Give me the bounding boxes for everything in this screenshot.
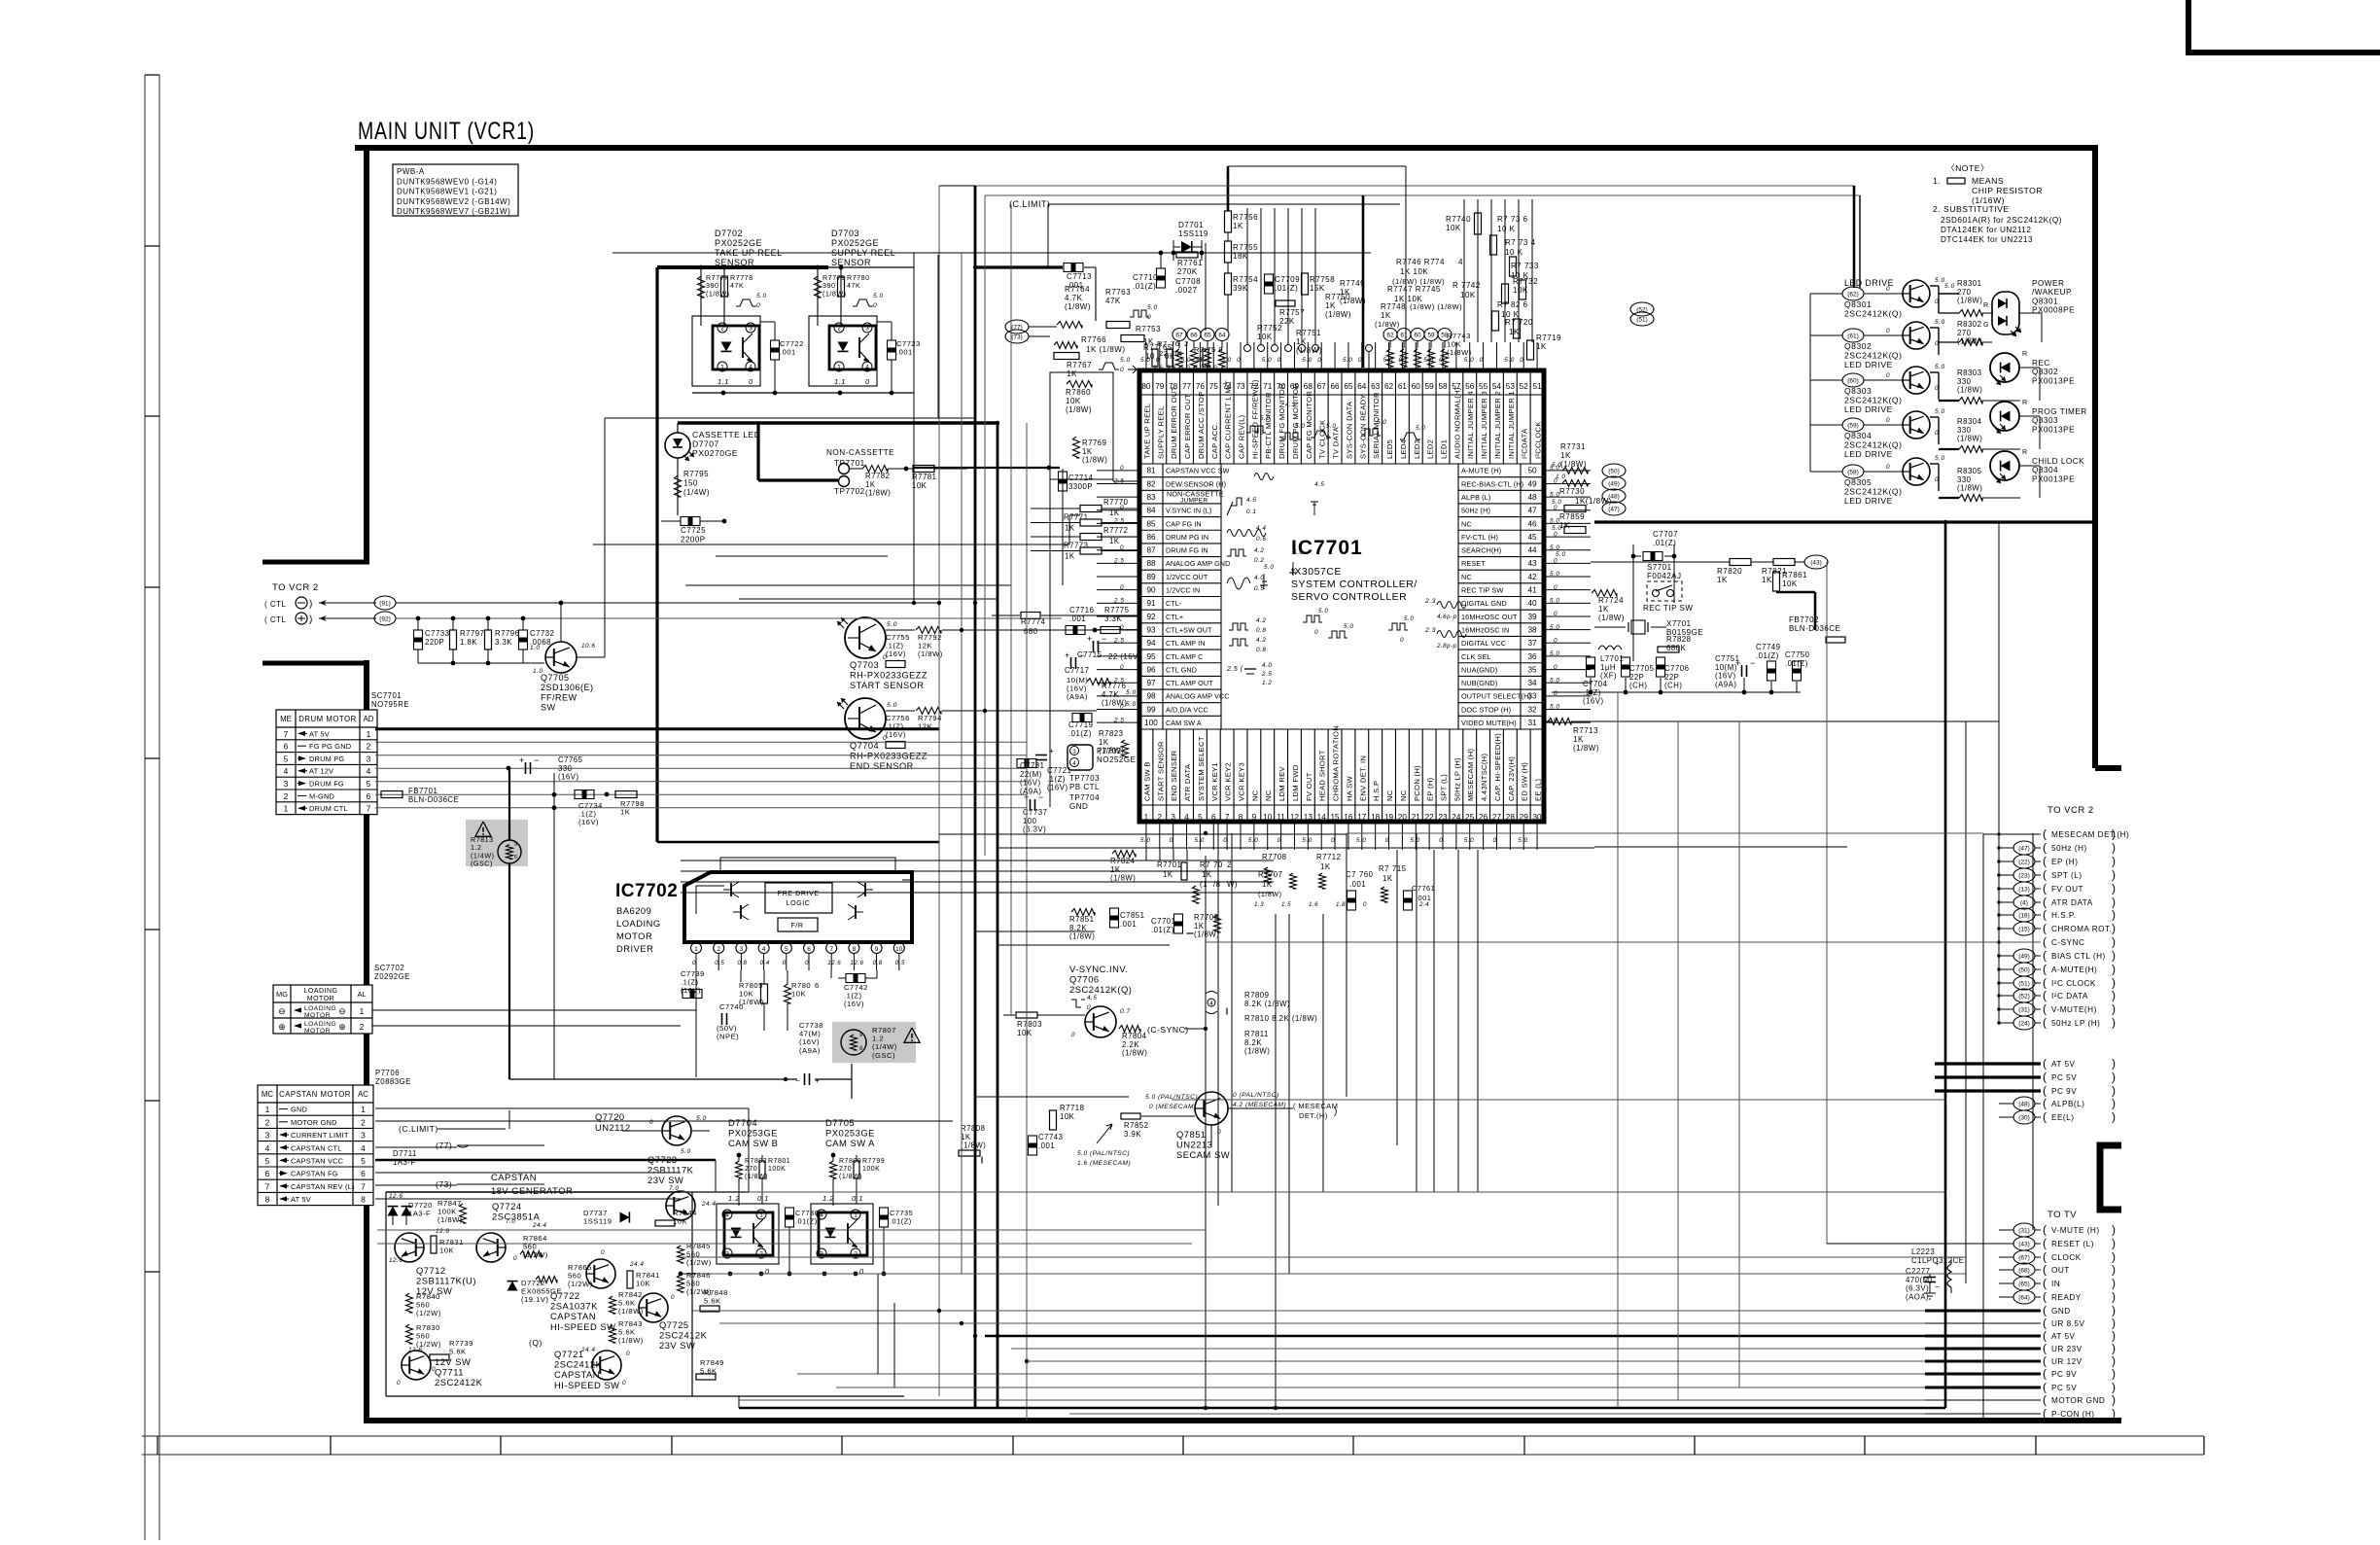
svg-text:0: 0 — [601, 1249, 605, 1256]
svg-text:SPT (L): SPT (L) — [2051, 871, 2082, 880]
svg-text:0.1: 0.1 — [1246, 509, 1256, 515]
svg-text:3.3K: 3.3K — [1104, 614, 1122, 623]
svg-text:TV DATA: TV DATA — [1332, 426, 1341, 459]
svg-text:5.0: 5.0 — [1248, 837, 1258, 844]
svg-text:330: 330 — [1957, 426, 1972, 435]
svg-text:(NPE): (NPE) — [717, 1033, 739, 1041]
svg-text:Q7851: Q7851 — [1176, 1129, 1207, 1140]
svg-text:0 (PAL/NTSC): 0 (PAL/NTSC) — [1233, 1092, 1279, 1099]
svg-text:.001: .001 — [1120, 920, 1137, 929]
svg-text:FB7701: FB7701 — [408, 787, 437, 795]
svg-text:99: 99 — [1146, 705, 1156, 714]
svg-text:NC: NC — [1264, 790, 1273, 801]
svg-text:(43): (43) — [2018, 1242, 2030, 1248]
svg-text:SW: SW — [541, 703, 556, 713]
svg-text:(18): (18) — [2018, 913, 2030, 920]
svg-text:CTL AMP C: CTL AMP C — [1166, 652, 1203, 661]
svg-text:Q8304: Q8304 — [1844, 431, 1872, 440]
svg-text:1K: 1K — [1381, 311, 1391, 320]
svg-text:Q8301: Q8301 — [2032, 297, 2058, 305]
svg-text:C7732: C7732 — [530, 629, 554, 638]
svg-text:Q8305: Q8305 — [1844, 477, 1872, 487]
svg-text:16: 16 — [1344, 813, 1353, 822]
svg-text:): ) — [2112, 895, 2117, 909]
svg-text:DRUM FG MONITOR: DRUM FG MONITOR — [1277, 383, 1286, 459]
svg-text:C7725: C7725 — [681, 526, 706, 535]
svg-text:1SS119: 1SS119 — [1178, 229, 1208, 238]
svg-text:RESET (L): RESET (L) — [2051, 1240, 2094, 1248]
svg-text:8: 8 — [1239, 813, 1243, 822]
svg-text:15: 15 — [1331, 813, 1341, 822]
svg-text:C2277: C2277 — [1906, 1267, 1930, 1276]
svg-text:MOTOR GND: MOTOR GND — [291, 1118, 337, 1127]
svg-text:1K: 1K — [961, 1133, 971, 1141]
svg-text:0: 0 — [626, 1351, 630, 1357]
svg-text:2: 2 — [361, 1117, 366, 1127]
svg-text:(19.1V): (19.1V) — [521, 1295, 548, 1304]
svg-text:HA SW: HA SW — [1345, 775, 1353, 801]
svg-text:⊕: ⊕ — [278, 1022, 286, 1032]
svg-text:GND: GND — [2051, 1307, 2071, 1316]
svg-text:2.6: 2.6 — [1166, 365, 1176, 371]
svg-text:END SENSER: END SENSER — [1170, 750, 1178, 801]
svg-text:6: 6 — [1211, 813, 1216, 822]
svg-text:): ) — [2112, 1317, 2117, 1330]
svg-text:D7704: D7704 — [728, 1117, 757, 1128]
svg-text:0.2: 0.2 — [1254, 557, 1264, 564]
svg-text:MESECAM DET.(H): MESECAM DET.(H) — [2051, 830, 2129, 839]
svg-text:8: 8 — [265, 1195, 270, 1205]
svg-text:SYSTEM SELECT: SYSTEM SELECT — [1197, 736, 1206, 801]
svg-text:DRUM FG IN: DRUM FG IN — [1166, 546, 1208, 555]
svg-text:4.2: 4.2 — [1256, 617, 1266, 624]
svg-text:): ) — [2112, 1277, 2117, 1290]
svg-text:Q7725: Q7725 — [659, 1319, 689, 1330]
svg-text:5.0: 5.0 — [1550, 571, 1559, 578]
svg-text:100: 100 — [1023, 817, 1037, 825]
svg-text:C7714: C7714 — [1068, 474, 1094, 482]
svg-text:(16V): (16V) — [1715, 672, 1736, 681]
svg-text:R7860: R7860 — [1066, 388, 1091, 397]
svg-text:0: 0 — [1237, 357, 1241, 364]
svg-text:(16V): (16V) — [1583, 697, 1604, 706]
svg-text:+: + — [1065, 650, 1070, 660]
svg-text:−: − — [795, 1076, 800, 1085]
svg-text:R7757: R7757 — [1279, 308, 1305, 317]
svg-text:0: 0 — [1886, 328, 1890, 334]
svg-text:(A9A): (A9A) — [1715, 680, 1736, 688]
svg-text:DEW.SENSOR (H): DEW.SENSOR (H) — [1166, 479, 1226, 488]
svg-text:R7712: R7712 — [1316, 853, 1341, 861]
svg-text:AL: AL — [357, 990, 366, 999]
svg-text:0.5: 0.5 — [895, 960, 905, 966]
svg-text:22P: 22P — [1664, 673, 1679, 682]
svg-text:35: 35 — [1527, 665, 1537, 674]
svg-text:Q7706: Q7706 — [1069, 974, 1100, 985]
svg-text:D7703: D7703 — [831, 228, 859, 238]
svg-text:1: 1 — [361, 1105, 366, 1114]
svg-text:4.5: 4.5 — [1246, 497, 1256, 504]
svg-text:98: 98 — [1146, 692, 1156, 701]
svg-text:VCR KEY1: VCR KEY1 — [1210, 762, 1219, 801]
svg-text:2SC2412K: 2SC2412K — [659, 1330, 708, 1341]
svg-text:(: ( — [2043, 1084, 2047, 1098]
svg-text:8.2K (1/8W): 8.2K (1/8W) — [1244, 1000, 1290, 1008]
svg-text:50Hz (H): 50Hz (H) — [2051, 844, 2087, 853]
svg-text:4.0: 4.0 — [1254, 575, 1264, 581]
svg-text:7: 7 — [284, 729, 289, 739]
svg-text:5.0: 5.0 — [1550, 518, 1559, 525]
svg-text:1K: 1K — [1233, 222, 1243, 230]
svg-text:R: R — [2022, 400, 2028, 406]
svg-text:(62): (62) — [1847, 292, 1859, 298]
svg-text:R7809: R7809 — [1244, 991, 1269, 1000]
svg-text:CLK SEL: CLK SEL — [1461, 652, 1491, 661]
svg-text:1: 1 — [265, 1105, 270, 1114]
svg-text:9: 9 — [859, 1033, 863, 1038]
svg-text:0: 0 — [1554, 611, 1557, 617]
svg-text:C-SYNC: C-SYNC — [2051, 938, 2084, 947]
svg-text:R8303: R8303 — [1957, 369, 1981, 377]
svg-text:INITIAL JUMPER 4: INITIAL JUMPER 4 — [1466, 391, 1475, 459]
svg-text:.01(Z): .01(Z) — [1756, 651, 1779, 660]
svg-text:( MESECAM: ( MESECAM — [1293, 1102, 1338, 1110]
svg-text:TP7704: TP7704 — [1069, 793, 1100, 802]
svg-text:4: 4 — [284, 766, 289, 776]
svg-text:.001: .001 — [1349, 880, 1366, 889]
svg-text:(52): (52) — [2018, 994, 2030, 1001]
svg-text:2.6: 2.6 — [1152, 365, 1163, 371]
svg-text:M-GND: M-GND — [309, 791, 334, 800]
svg-text:(1/8W): (1/8W) — [822, 289, 847, 298]
svg-text:): ) — [2112, 882, 2117, 895]
svg-text:0: 0 — [1277, 357, 1281, 364]
svg-text:5.0: 5.0 — [1260, 415, 1270, 422]
svg-text:PC 9V: PC 9V — [2051, 1370, 2077, 1379]
svg-text:5.0: 5.0 — [1326, 423, 1336, 430]
svg-text:2SC2412K: 2SC2412K — [554, 1359, 603, 1370]
svg-text:1K: 1K — [1762, 576, 1772, 584]
svg-text:): ) — [2112, 935, 2117, 949]
svg-text:BA6209: BA6209 — [616, 905, 651, 916]
svg-text:0: 0 — [873, 302, 877, 309]
svg-text:PC 5V: PC 5V — [2051, 1073, 2077, 1082]
svg-text:R7801: R7801 — [768, 1158, 790, 1165]
svg-text:0: 0 — [1358, 357, 1362, 364]
svg-text:R7803: R7803 — [1017, 1020, 1042, 1029]
svg-text:FF/REW: FF/REW — [541, 692, 577, 702]
svg-text:1K: 1K — [1560, 451, 1571, 460]
svg-text:FV OUT: FV OUT — [2051, 885, 2083, 894]
svg-text:1: 1 — [694, 946, 698, 953]
svg-text:89: 89 — [1146, 573, 1156, 581]
svg-text:(1/2W): (1/2W) — [568, 1280, 593, 1288]
svg-text:14: 14 — [1317, 813, 1327, 822]
svg-text:(1/8W): (1/8W) — [961, 1141, 986, 1150]
svg-text:(1/8W): (1/8W) — [1375, 320, 1400, 329]
svg-text:5.0: 5.0 — [1935, 319, 1945, 326]
svg-text:25: 25 — [1465, 813, 1475, 822]
svg-text:(CH): (CH) — [1664, 682, 1682, 690]
svg-text:65: 65 — [1204, 333, 1211, 339]
svg-text:5: 5 — [1198, 813, 1203, 822]
svg-text:0: 0 — [1886, 286, 1890, 293]
svg-text:UN2213: UN2213 — [1176, 1140, 1212, 1150]
svg-text:( CTL: ( CTL — [264, 600, 287, 609]
svg-text:(1/8W): (1/8W) — [1122, 1049, 1147, 1058]
svg-text:Q7712: Q7712 — [416, 1265, 446, 1276]
svg-text:LED1: LED1 — [1440, 439, 1449, 459]
svg-text:2SC2412K(Q): 2SC2412K(Q) — [1069, 984, 1132, 995]
svg-text:2SD601A(R) for 2SC2412K(Q): 2SD601A(R) for 2SC2412K(Q) — [1941, 216, 2062, 225]
svg-text:R7767: R7767 — [1067, 361, 1092, 369]
svg-text:R7: R7 — [1157, 339, 1168, 348]
svg-text:AT 5V: AT 5V — [309, 729, 330, 738]
svg-text:68: 68 — [1304, 382, 1313, 391]
svg-text:(: ( — [2043, 1223, 2047, 1237]
svg-text:5.0: 5.0 — [1550, 491, 1559, 498]
svg-text:5.0: 5.0 — [1935, 455, 1945, 462]
svg-text:10K: 10K — [1017, 1029, 1032, 1037]
svg-text:2.3: 2.3 — [1424, 627, 1436, 634]
svg-text:77: 77 — [1182, 382, 1192, 391]
svg-text:CLOCK: CLOCK — [2051, 1253, 2082, 1262]
svg-text:23V SW: 23V SW — [647, 1175, 683, 1185]
svg-text:(: ( — [2043, 1002, 2047, 1016]
svg-text:VCR KEY2: VCR KEY2 — [1224, 762, 1233, 801]
svg-text:R7724: R7724 — [1598, 596, 1624, 605]
svg-text:(1/8W): (1/8W) — [1065, 302, 1091, 311]
svg-text:R7781: R7781 — [912, 473, 936, 481]
svg-text:0: 0 — [1120, 664, 1124, 671]
svg-text:(1/8W): (1/8W) — [594, 1313, 596, 1314]
svg-text:POWER: POWER — [2032, 279, 2064, 288]
svg-text:5.0: 5.0 — [1194, 365, 1204, 371]
svg-text:0.8: 0.8 — [737, 960, 747, 966]
svg-text:CAP. HI-SPEED(H): CAP. HI-SPEED(H) — [1493, 733, 1502, 801]
svg-text:ENV DET. IN: ENV DET. IN — [1358, 755, 1367, 801]
svg-text:CTL-: CTL- — [1166, 599, 1182, 608]
svg-text:4.2: 4.2 — [1256, 637, 1266, 644]
svg-text:R7852: R7852 — [1124, 1121, 1148, 1130]
svg-text:1K: 1K — [1194, 922, 1205, 931]
svg-text:/WAKEUP: /WAKEUP — [2032, 288, 2072, 297]
svg-text:NUA(GND): NUA(GND) — [1461, 665, 1497, 674]
svg-text:2.5: 2.5 — [1113, 637, 1124, 644]
svg-text:AUDIO NORMAL(H): AUDIO NORMAL(H) — [1452, 387, 1461, 459]
svg-text:2.2K: 2.2K — [1122, 1040, 1139, 1049]
svg-text:−: − — [1102, 634, 1107, 644]
svg-text:2SC2412K(Q): 2SC2412K(Q) — [1844, 440, 1902, 450]
svg-text:AT 5V: AT 5V — [2051, 1060, 2076, 1069]
svg-text:H.S.P: H.S.P — [1372, 781, 1381, 801]
svg-text:23V SW: 23V SW — [659, 1340, 695, 1351]
svg-text:NC: NC — [1461, 519, 1472, 528]
svg-text:92: 92 — [1146, 613, 1156, 621]
svg-text:): ) — [2112, 1367, 2117, 1381]
svg-text:R7804: R7804 — [1122, 1032, 1147, 1040]
svg-text:10K: 10K — [1782, 579, 1798, 588]
svg-text:1μH: 1μH — [1600, 663, 1616, 672]
svg-text:5.0: 5.0 — [1518, 837, 1527, 844]
svg-text:3: 3 — [1171, 813, 1175, 822]
svg-text:DUNTK9568WEV1 (-G21): DUNTK9568WEV1 (-G21) — [397, 188, 497, 196]
svg-text:10K: 10K — [1060, 1112, 1075, 1121]
svg-text:84: 84 — [1146, 507, 1156, 515]
svg-text:1.3: 1.3 — [1254, 901, 1264, 908]
svg-text:R7 73 6: R7 73 6 — [1497, 215, 1528, 224]
svg-text:1K: 1K — [1509, 328, 1520, 336]
svg-text:(1/8W): (1/8W) — [706, 289, 730, 298]
svg-text:UR 12V: UR 12V — [2051, 1357, 2082, 1366]
svg-text:66: 66 — [1331, 382, 1341, 391]
svg-text:): ) — [2112, 963, 2117, 976]
svg-text:(: ( — [2043, 855, 2047, 868]
svg-text:(61): (61) — [1847, 334, 1859, 340]
svg-text:10: 10 — [1145, 352, 1155, 361]
svg-text:C7761: C7761 — [1412, 884, 1435, 893]
svg-text:1: 1 — [720, 365, 724, 371]
svg-text:R8305: R8305 — [1957, 467, 1982, 475]
svg-text:5.0: 5.0 — [1416, 425, 1425, 432]
svg-text:40: 40 — [1527, 599, 1537, 608]
svg-text:2.5: 2.5 — [1113, 717, 1124, 723]
svg-text:46: 46 — [1527, 519, 1537, 528]
svg-text:30: 30 — [1533, 813, 1543, 822]
svg-text:0: 0 — [1120, 584, 1124, 591]
svg-text:96: 96 — [1146, 665, 1156, 674]
svg-text:MOTOR: MOTOR — [304, 1028, 331, 1035]
svg-text:): ) — [309, 599, 313, 610]
svg-text:(: ( — [2043, 1329, 2047, 1343]
svg-text:61: 61 — [1400, 333, 1408, 339]
svg-text:C7851: C7851 — [1120, 911, 1144, 920]
svg-text:R7800: R7800 — [839, 1158, 861, 1165]
svg-text:ATR DATA: ATR DATA — [2051, 898, 2093, 907]
svg-text:REC: REC — [2032, 359, 2050, 368]
svg-text:(1/8W): (1/8W) — [1957, 484, 1982, 493]
svg-text:67: 67 — [1317, 382, 1327, 391]
svg-text:4: 4 — [1184, 813, 1189, 822]
svg-text:.001: .001 — [1038, 1141, 1055, 1150]
svg-text:5.0: 5.0 — [887, 621, 897, 628]
svg-text:22(M): 22(M) — [1020, 770, 1042, 779]
svg-text:R 7742: R 7742 — [1452, 281, 1481, 290]
svg-text:0: 0 — [1554, 531, 1557, 538]
svg-text:0: 0 — [1554, 505, 1557, 511]
svg-text:R7750: R7750 — [1325, 293, 1350, 301]
svg-text:5.0: 5.0 — [1262, 357, 1272, 364]
svg-text:UN2112: UN2112 — [595, 1122, 631, 1133]
svg-text:SYS-CON DATA: SYS-CON DATA — [1345, 401, 1353, 459]
svg-text:AT 5V: AT 5V — [2051, 1332, 2076, 1341]
svg-text:(1/8W): (1/8W) — [1957, 297, 1982, 305]
svg-text:MOTOR: MOTOR — [616, 931, 652, 941]
svg-text:4.6p-p: 4.6p-p — [1437, 614, 1457, 620]
svg-text:SPT (L): SPT (L) — [1440, 774, 1449, 801]
svg-text:LOADING: LOADING — [616, 918, 661, 929]
svg-text:5.6K: 5.6K — [449, 1348, 467, 1356]
svg-text:(1/8W): (1/8W) — [437, 1215, 463, 1224]
svg-text:7.0: 7.0 — [506, 1218, 515, 1225]
svg-text:0: 0 — [756, 302, 760, 309]
svg-text:R7763: R7763 — [1105, 288, 1131, 297]
svg-text:NC: NC — [1399, 790, 1408, 801]
svg-text:.01(Z): .01(Z) — [795, 1216, 818, 1225]
svg-text:(64): (64) — [2018, 1295, 2030, 1302]
svg-text:44: 44 — [1527, 546, 1537, 555]
svg-text:+: + — [1087, 634, 1093, 644]
svg-text:CAP. 23V(H): CAP. 23V(H) — [1507, 756, 1516, 801]
svg-text:⊖: ⊖ — [278, 1006, 286, 1016]
svg-text:5: 5 — [265, 1156, 270, 1166]
svg-text:4.3: 4.3 — [1285, 402, 1295, 408]
svg-text:): ) — [2112, 922, 2117, 935]
svg-text:(23): (23) — [2018, 873, 2030, 880]
svg-text:): ) — [2112, 1110, 2117, 1124]
svg-text:LED5: LED5 — [1385, 439, 1394, 459]
svg-text:65: 65 — [1344, 382, 1353, 391]
svg-text:CURRENT LIMIT: CURRENT LIMIT — [291, 1131, 349, 1140]
svg-text:D7705: D7705 — [825, 1117, 855, 1128]
svg-text:(59): (59) — [1847, 423, 1859, 430]
svg-text:1K: 1K — [1573, 735, 1584, 744]
svg-text:1K: 1K — [1536, 342, 1547, 351]
svg-text:(: ( — [2043, 922, 2047, 935]
svg-text:10K: 10K — [791, 990, 806, 999]
svg-text:270: 270 — [745, 1166, 757, 1173]
svg-text:3: 3 — [865, 326, 869, 333]
svg-text:1: 1 — [837, 365, 841, 371]
svg-text:5.0: 5.0 — [1935, 408, 1945, 415]
svg-text:5.0: 5.0 — [1377, 419, 1386, 426]
svg-text:29: 29 — [1520, 813, 1529, 822]
svg-text:39: 39 — [1527, 613, 1537, 621]
svg-text:LOGIC: LOGIC — [787, 898, 811, 907]
svg-text:LED DRIVE: LED DRIVE — [1844, 449, 1893, 459]
svg-text:15K: 15K — [1310, 284, 1325, 293]
svg-text:0: 0 — [1223, 837, 1227, 844]
svg-text:TP7701: TP7701 — [834, 459, 865, 468]
svg-text:0: 0 — [1886, 417, 1890, 424]
svg-text:MG: MG — [276, 990, 288, 999]
svg-text:(: ( — [2043, 868, 2047, 882]
svg-text:ALPB (L): ALPB (L) — [1461, 493, 1490, 502]
svg-text:2: 2 — [1227, 860, 1232, 869]
svg-text:(16V): (16V) — [578, 818, 599, 826]
svg-text:5.0: 5.0 — [1556, 551, 1566, 558]
svg-text:6: 6 — [815, 981, 820, 990]
svg-text:): ) — [1334, 1106, 1338, 1117]
svg-text:(: ( — [2043, 1342, 2047, 1355]
svg-text:.001: .001 — [780, 348, 796, 357]
svg-text:2. SUBSTITUTIVE: 2. SUBSTITUTIVE — [1933, 204, 2010, 214]
svg-text:11: 11 — [1277, 813, 1285, 822]
svg-text:(91): (91) — [379, 601, 391, 608]
svg-text:DTC144EK for UN2213: DTC144EK for UN2213 — [1941, 235, 2033, 244]
svg-text:10K: 10K — [1257, 333, 1273, 341]
svg-text:(48): (48) — [2018, 1102, 2030, 1108]
svg-text:67: 67 — [1175, 333, 1183, 339]
svg-text:INITIAL JUMPER 3: INITIAL JUMPER 3 — [1480, 391, 1488, 459]
svg-text:1K: 1K — [1110, 865, 1121, 874]
svg-text:FV OUT: FV OUT — [1305, 772, 1313, 801]
svg-text:2.5 (: 2.5 ( — [1226, 666, 1243, 673]
svg-text:BIAS CTL (H): BIAS CTL (H) — [2051, 952, 2106, 961]
svg-text:TP7702: TP7702 — [834, 487, 865, 496]
svg-text:(: ( — [2043, 1071, 2047, 1084]
svg-text:12.6: 12.6 — [408, 1347, 422, 1353]
